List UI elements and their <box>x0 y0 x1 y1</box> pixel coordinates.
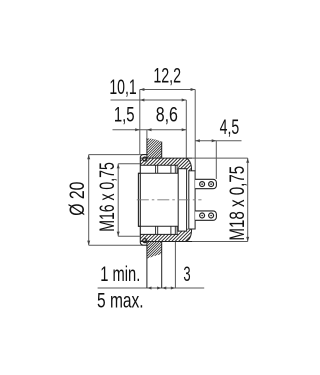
svg-text:1,5: 1,5 <box>114 103 135 126</box>
svg-text:12,2: 12,2 <box>153 64 181 87</box>
o-ring seal bottom <box>143 239 147 243</box>
solder terminal lug lower <box>195 211 216 220</box>
dimension M16 vertical line with arrows and extension lines <box>117 164 140 236</box>
dimension M18 vertical line with arrows and extension lines <box>192 158 249 241</box>
svg-text:3: 3 <box>183 262 190 286</box>
dimension D20 vertical line with arrows and extension lines <box>87 155 143 246</box>
panel section top (hatched) <box>147 138 162 158</box>
svg-text:5 max.: 5 max. <box>97 288 144 312</box>
wire: extension line x=175.4 for dimension 3 <box>174 242 176 289</box>
centerline axis <box>137 199 202 201</box>
dimension 4,5 line with arrows <box>195 139 241 142</box>
svg-text:8,6: 8,6 <box>156 102 178 126</box>
svg-text:1 min.: 1 min. <box>100 262 140 285</box>
o-ring seal top <box>143 157 147 161</box>
rear box <box>189 171 195 229</box>
panel section bottom (hatched) <box>147 241 162 288</box>
wire: extension line left of flange front (x=139.8 up to 12,2 line) <box>139 90 141 155</box>
body band dividers bottom <box>156 226 178 234</box>
dimension 1,5 and 8,6 shared line with arrows <box>113 128 187 131</box>
svg-text:M16 x 0,75: M16 x 0,75 <box>95 162 118 232</box>
wire: extension line panel front face up to 1,5 line <box>146 130 148 139</box>
dimension 10,1 line with arrows <box>111 99 187 102</box>
connector nut section bottom (hatched strip with shoulder) <box>140 229 192 242</box>
svg-text:Ø 20: Ø 20 <box>65 182 89 216</box>
insert retainer box <box>178 169 186 231</box>
wire: extension line rear of body x=186.3 <box>185 100 187 158</box>
connector nut section top (hatched strip with shoulder) <box>140 158 192 171</box>
wire: extension line terminal tip x=216.3 <box>215 141 217 179</box>
connector flange front face with rounded corners <box>140 155 147 246</box>
connector insert front face <box>138 173 140 226</box>
solder terminal lug upper <box>195 179 216 188</box>
dimension 12,2 line with arrows <box>140 88 195 91</box>
svg-text:M18 x 0,75: M18 x 0,75 <box>225 166 249 241</box>
connector body outline <box>138 173 178 226</box>
body band dividers top <box>156 165 178 173</box>
svg-text:10,1: 10,1 <box>109 75 136 98</box>
wire: extension line rear face x=195.2 <box>194 90 196 171</box>
svg-text:4,5: 4,5 <box>220 115 240 138</box>
dimension panel thickness and 3: bottom shared line with arrows <box>98 287 205 290</box>
